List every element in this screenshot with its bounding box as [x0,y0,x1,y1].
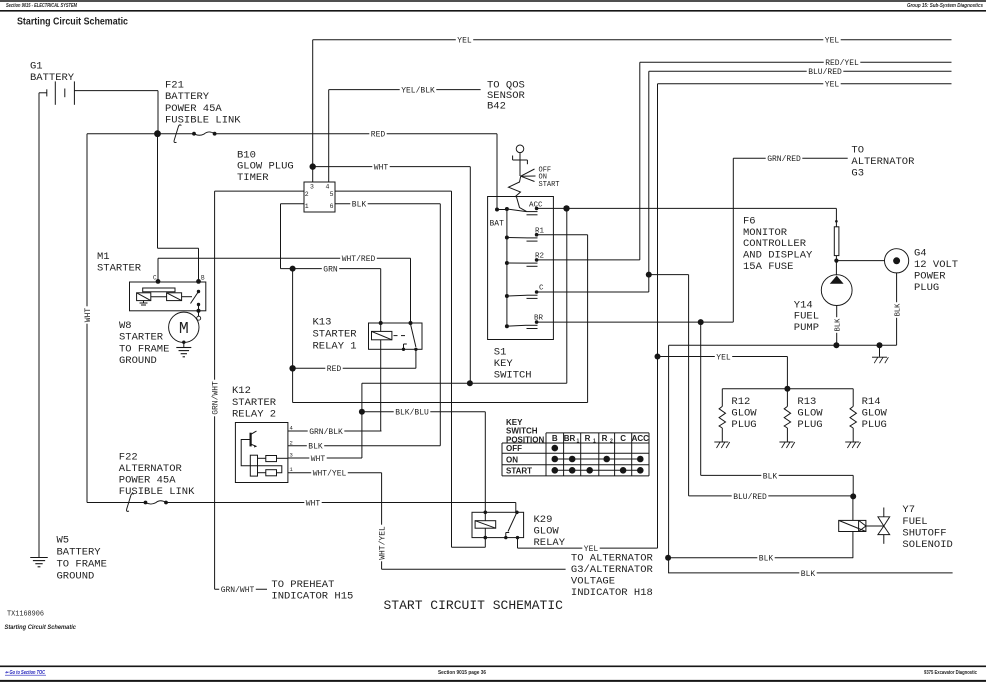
svg-text:2: 2 [290,439,293,446]
svg-text:SWITCH: SWITCH [494,370,532,382]
svg-text:AND DISPLAY: AND DISPLAY [743,250,813,262]
svg-text:PLUG: PLUG [914,282,939,294]
svg-text:BATTERY: BATTERY [165,91,210,103]
svg-text:GLOW PLUG: GLOW PLUG [237,161,294,173]
svg-text:WHT: WHT [84,308,93,323]
svg-text:GRN/WHT: GRN/WHT [211,381,220,415]
svg-text:BLU/RED: BLU/RED [808,68,842,77]
svg-text:RELAY 1: RELAY 1 [313,341,357,353]
svg-text:M1: M1 [97,251,110,263]
svg-text:KEY: KEY [506,418,523,427]
svg-text:TO: TO [851,145,864,157]
svg-text:1: 1 [305,203,309,210]
svg-text:BATTERY: BATTERY [30,72,75,84]
svg-text:Group 15: Sub-System Diagnosti: Group 15: Sub-System Diagnostics [907,3,983,9]
svg-text:B: B [552,434,558,443]
svg-text:TO FRAME: TO FRAME [119,343,169,355]
svg-text:Y14: Y14 [794,299,813,311]
svg-text:PLUG: PLUG [797,419,822,431]
svg-text:GRN: GRN [323,265,338,274]
svg-text:BLK: BLK [763,472,778,481]
svg-text:B10: B10 [237,149,256,161]
svg-text:TO FRAME: TO FRAME [57,558,107,570]
svg-text:OFF: OFF [506,444,522,453]
svg-text:Starting Circuit Schematic: Starting Circuit Schematic [5,624,77,631]
svg-text:POWER 45A: POWER 45A [165,103,222,115]
svg-text:GLOW: GLOW [797,408,823,420]
svg-text:4: 4 [326,184,330,191]
svg-text:YEL: YEL [825,37,840,46]
svg-text:Starting Circuit Schematic: Starting Circuit Schematic [17,16,128,28]
svg-text:WHT/RED: WHT/RED [342,255,376,264]
svg-text:WHT: WHT [311,455,326,464]
svg-text:GRN/RED: GRN/RED [767,155,801,164]
svg-text:BLK: BLK [352,201,367,210]
svg-text:RELAY 2: RELAY 2 [232,409,276,421]
svg-text:START: START [539,181,560,189]
svg-text:BLK: BLK [834,318,842,331]
svg-text:R12: R12 [731,396,750,408]
svg-text:B: B [201,275,205,282]
svg-text:6: 6 [330,203,334,210]
svg-text:9375 Excavator Diagnostic: 9375 Excavator Diagnostic [924,670,977,676]
svg-text:POWER 45A: POWER 45A [119,475,176,487]
svg-text:START CIRCUIT SCHEMATIC: START CIRCUIT SCHEMATIC [384,598,564,613]
svg-text:G3/ALTERNATOR: G3/ALTERNATOR [571,564,654,576]
svg-text:GLOW: GLOW [862,408,888,420]
svg-text:F6: F6 [743,215,756,227]
svg-text:POWER: POWER [914,270,946,282]
svg-text:GROUND: GROUND [57,570,95,582]
svg-text:INDICATOR H15: INDICATOR H15 [271,590,353,602]
svg-text:PUMP: PUMP [794,322,819,334]
svg-text:C: C [620,434,626,443]
svg-text:M: M [179,319,189,338]
svg-text:MONITOR: MONITOR [743,227,788,239]
svg-text:YEL: YEL [457,37,472,46]
svg-text:YEL: YEL [825,81,840,90]
svg-text:BLK: BLK [895,303,903,316]
svg-text:STARTER: STARTER [232,397,277,409]
svg-text:15A FUSE: 15A FUSE [743,261,793,273]
svg-text:1: 1 [593,439,596,445]
svg-text:RED: RED [327,365,342,374]
svg-text:K29: K29 [534,514,553,526]
svg-text:TIMER: TIMER [237,172,269,184]
svg-text:CONTROLLER: CONTROLLER [743,238,807,250]
svg-text:SOLENOID: SOLENOID [902,539,952,551]
svg-text:ALTERNATOR: ALTERNATOR [119,463,183,475]
svg-text:3: 3 [290,452,293,459]
svg-text:YEL/BLK: YEL/BLK [401,86,435,95]
svg-text:S1: S1 [494,347,507,359]
svg-text:Section 9015 - ELECTRICAL SYST: Section 9015 - ELECTRICAL SYSTEM [6,3,77,9]
svg-text:SWITCH: SWITCH [506,427,538,436]
svg-text:GRN/BLK: GRN/BLK [309,428,343,437]
svg-text:2: 2 [610,439,613,445]
svg-text:PLUG: PLUG [862,419,887,431]
svg-text:WHT: WHT [374,163,389,172]
svg-text:ACC: ACC [529,201,543,209]
svg-text:BR: BR [534,315,544,323]
svg-text:STARTER: STARTER [97,263,142,275]
svg-text:BLK: BLK [759,555,774,564]
svg-text:TO ALTERNATOR: TO ALTERNATOR [571,552,654,564]
svg-text:GLOW: GLOW [731,408,757,420]
svg-text:KEY: KEY [494,358,514,370]
svg-text:F21: F21 [165,80,184,92]
svg-text:⇐ Go to Section TOC: ⇐ Go to Section TOC [5,670,45,676]
svg-text:12 VOLT: 12 VOLT [914,259,958,271]
svg-text:K13: K13 [313,316,332,328]
svg-text:R2: R2 [535,253,544,261]
svg-text:ON: ON [506,455,518,464]
svg-text:SHUTOFF: SHUTOFF [902,527,946,539]
svg-text:YEL: YEL [584,545,599,554]
svg-text:YEL: YEL [716,353,731,362]
svg-text:GROUND: GROUND [119,355,157,367]
svg-text:R1: R1 [535,227,545,235]
svg-text:R14: R14 [862,396,881,408]
svg-text:Y7: Y7 [902,504,915,516]
svg-text:B42: B42 [487,100,506,112]
svg-text:BATTERY: BATTERY [57,546,102,558]
svg-text:W8: W8 [119,320,132,332]
svg-text:WHT: WHT [306,499,321,508]
svg-text:Section 9015 page 36: Section 9015 page 36 [438,670,486,676]
svg-text:F22: F22 [119,451,138,463]
svg-text:R: R [602,434,608,443]
svg-text:VOLTAGE: VOLTAGE [571,575,615,587]
svg-text:STARTER: STARTER [119,332,164,344]
svg-text:ACC: ACC [632,434,650,443]
svg-text:START: START [506,467,532,476]
svg-text:2: 2 [305,191,309,198]
svg-text:C: C [539,285,544,293]
svg-text:1: 1 [577,439,580,445]
svg-text:R: R [585,434,591,443]
svg-text:BLU/RED: BLU/RED [733,493,767,502]
svg-text:3: 3 [310,184,314,191]
svg-text:BR: BR [564,434,576,443]
svg-text:FUEL: FUEL [902,516,927,528]
svg-text:INDICATOR H18: INDICATOR H18 [571,587,653,599]
svg-text:GRN/WHT: GRN/WHT [221,586,255,595]
svg-text:BLK: BLK [801,570,816,579]
svg-text:R13: R13 [797,396,816,408]
svg-text:GLOW: GLOW [534,526,560,538]
svg-text:BLK: BLK [308,443,323,452]
svg-text:PLUG: PLUG [731,419,756,431]
svg-text:G1: G1 [30,60,43,72]
svg-text:WHT/YEL: WHT/YEL [378,526,387,560]
svg-text:WHT/YEL: WHT/YEL [313,470,347,479]
svg-text:RED: RED [371,131,386,140]
svg-text:FUSIBLE LINK: FUSIBLE LINK [165,114,241,126]
svg-text:FUEL: FUEL [794,311,819,323]
svg-text:STARTER: STARTER [313,329,358,341]
svg-text:TX1168906: TX1168906 [7,611,44,619]
svg-text:K12: K12 [232,385,251,397]
svg-text:G4: G4 [914,247,927,259]
svg-text:G3: G3 [851,168,864,180]
svg-text:W5: W5 [57,534,70,546]
svg-text:BAT: BAT [490,220,505,229]
svg-text:ALTERNATOR: ALTERNATOR [851,156,915,168]
svg-text:BLK/BLU: BLK/BLU [395,409,429,418]
svg-text:TO PREHEAT: TO PREHEAT [271,579,334,591]
svg-text:5: 5 [330,191,334,198]
svg-text:RELAY: RELAY [534,537,566,549]
